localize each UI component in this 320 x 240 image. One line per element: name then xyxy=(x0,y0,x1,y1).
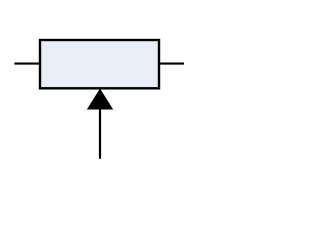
resistor body (potentiometer) xyxy=(40,40,159,88)
wire left terminal xyxy=(14,63,40,65)
wire right terminal xyxy=(159,63,184,65)
wiper arrowhead xyxy=(87,89,113,110)
wiper arrow stem xyxy=(99,107,101,159)
